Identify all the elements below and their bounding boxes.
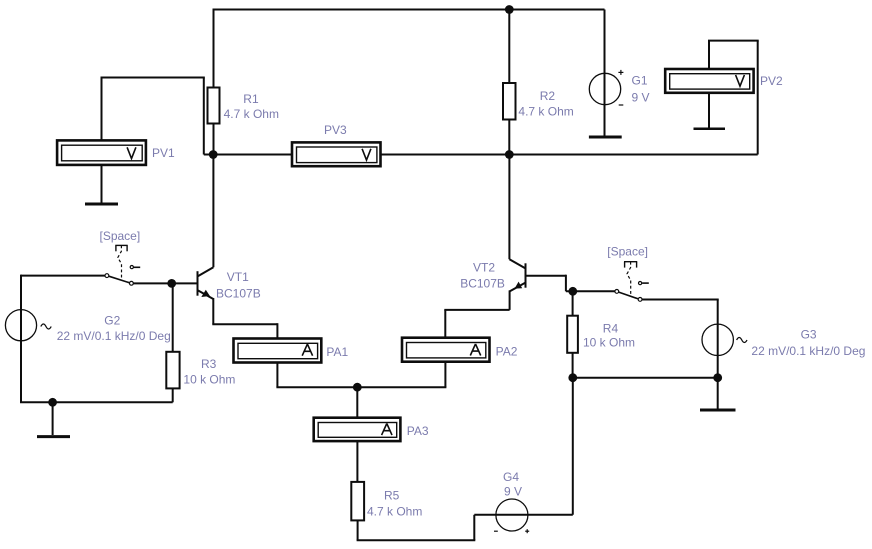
svg-text:PA2: PA2 (496, 344, 518, 358)
svg-text:4.7 k Ohm: 4.7 k Ohm (367, 505, 422, 519)
svg-text:R3: R3 (201, 357, 217, 371)
svg-text:G1: G1 (632, 74, 648, 88)
svg-text:VT1: VT1 (227, 270, 249, 284)
svg-text:10 k Ohm: 10 k Ohm (183, 373, 235, 387)
svg-text:22 mV/0.1 kHz/0 Deg: 22 mV/0.1 kHz/0 Deg (57, 329, 171, 343)
svg-text:G3: G3 (801, 328, 817, 342)
svg-text:R2: R2 (540, 89, 556, 103)
svg-text:PA1: PA1 (326, 345, 348, 359)
svg-text:R5: R5 (384, 489, 400, 503)
svg-text:BC107B: BC107B (216, 287, 261, 301)
svg-text:4.7 k Ohm: 4.7 k Ohm (518, 105, 573, 119)
svg-text:9 V: 9 V (632, 91, 650, 105)
svg-text:22 mV/0.1 kHz/0 Deg: 22 mV/0.1 kHz/0 Deg (751, 344, 865, 358)
svg-text:PV1: PV1 (152, 146, 175, 160)
svg-text:10 k Ohm: 10 k Ohm (583, 336, 635, 350)
svg-text:PA3: PA3 (407, 424, 429, 438)
svg-text:[Space]: [Space] (100, 229, 141, 243)
svg-text:VT2: VT2 (473, 261, 495, 275)
svg-text:BC107B: BC107B (460, 277, 505, 291)
svg-text:R1: R1 (243, 92, 259, 106)
svg-text:4.7 k Ohm: 4.7 k Ohm (224, 107, 279, 121)
svg-text:9 V: 9 V (504, 485, 522, 499)
svg-text:PV2: PV2 (760, 74, 783, 88)
svg-text:G4: G4 (503, 470, 519, 484)
svg-text:R4: R4 (603, 322, 619, 336)
svg-text:G2: G2 (104, 313, 120, 327)
svg-text:[Space]: [Space] (607, 245, 648, 259)
svg-text:PV3: PV3 (324, 123, 347, 137)
